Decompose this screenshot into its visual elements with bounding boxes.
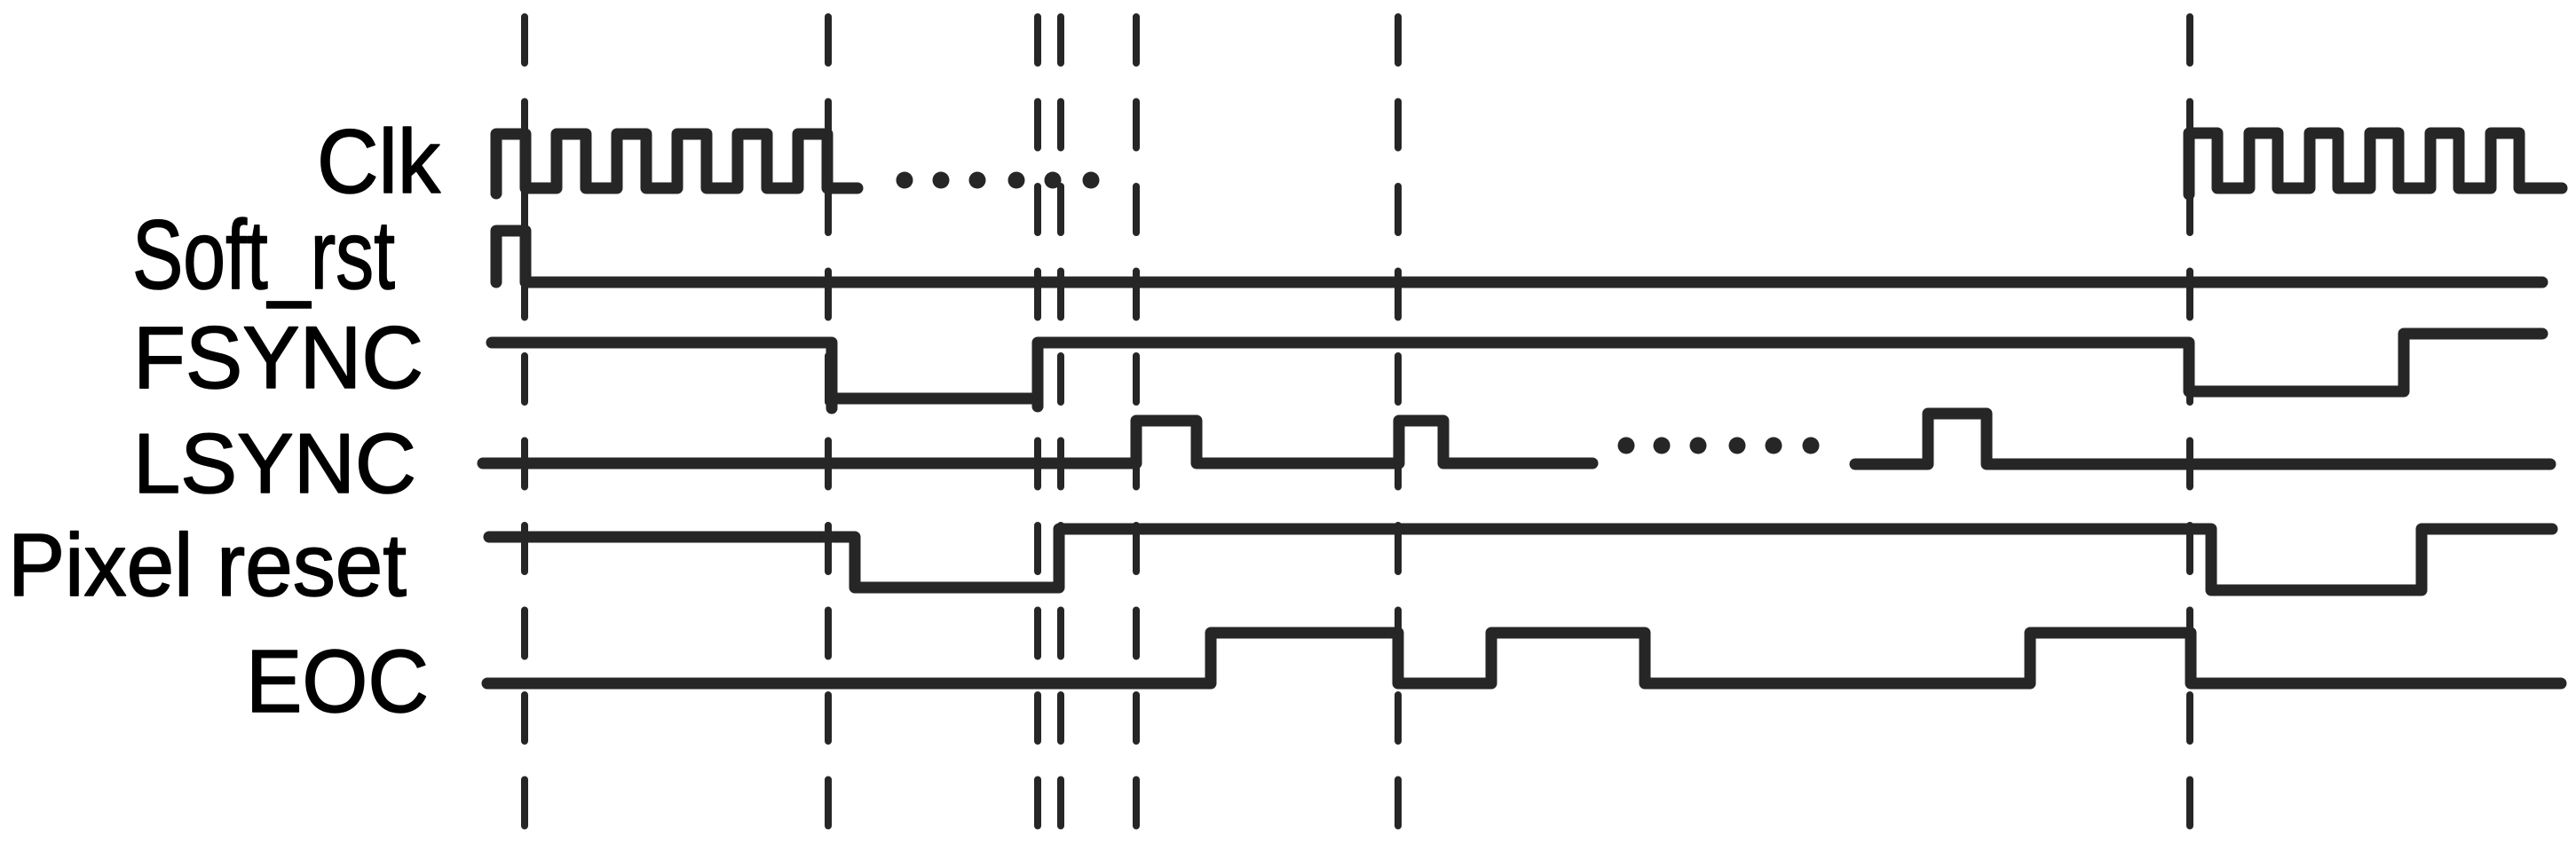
dashed timeline T5 [1133,17,1140,826]
svg-text:Soft_rst: Soft_rst [132,201,395,310]
svg-text:EOC: EOC [246,632,429,731]
dashed timeline T4 [1057,17,1064,826]
Soft_rst waveform reset pulse and low line [496,231,2542,282]
Clk waveform right clock burst [2189,133,2562,194]
LSYNC waveform left low line with pulses 1 and 2 [483,421,1592,463]
Clk waveform left clock burst [496,134,857,193]
FSYNC waveform rising edge, long high, right dip and final high [1038,334,2542,406]
FSYNC waveform low segment 1 [832,393,1038,405]
LSYNC waveform right low line with pulse 3 [1855,414,2550,464]
dashed timeline T3 [1034,17,1041,826]
dashed timeline T2 [825,17,832,826]
EOC waveform [487,633,2561,683]
Pixel reset waveform [489,529,2552,590]
svg-text:FSYNC: FSYNC [133,308,423,406]
svg-text:Clk: Clk [317,111,441,212]
ellipsis dots on Clk row [897,172,913,189]
svg-text:LSYNC: LSYNC [133,416,416,511]
dashed timeline T7 [2186,17,2193,826]
dashed timeline T6 [1395,17,1402,826]
svg-text:Pixel reset: Pixel reset [8,516,407,615]
FSYNC waveform high segment 1 with falling edge [492,343,832,408]
ellipsis dots on LSYNC row [1618,438,1635,454]
dashed timeline T1 [521,17,528,826]
